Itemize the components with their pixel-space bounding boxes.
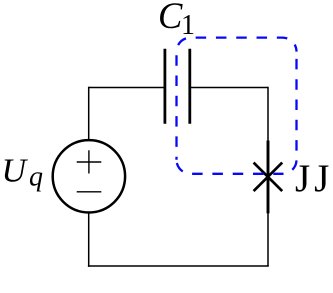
svg-text:JJ: JJ — [295, 157, 333, 200]
label JJ — [295, 157, 333, 200]
wire top-left segment — [89, 87, 165, 89]
label C1 — [158, 0, 195, 41]
svg-text:q: q — [29, 162, 43, 193]
wire left upper segment — [88, 87, 90, 140]
wire top-right segment — [190, 87, 268, 89]
svg-text:1: 1 — [181, 10, 195, 41]
blue dashed selection boundary — [177, 38, 297, 174]
wire bottom — [88, 265, 269, 267]
wire right vertical — [267, 87, 269, 266]
voltage source Uq — [53, 140, 125, 212]
wire left lower segment — [88, 213, 90, 267]
josephson junction JJ (thick bar and cross) — [254, 141, 283, 214]
svg-text:U: U — [2, 153, 29, 190]
capacitor C1 — [165, 49, 190, 124]
label Uq — [2, 153, 44, 193]
svg-text:C: C — [158, 0, 183, 36]
